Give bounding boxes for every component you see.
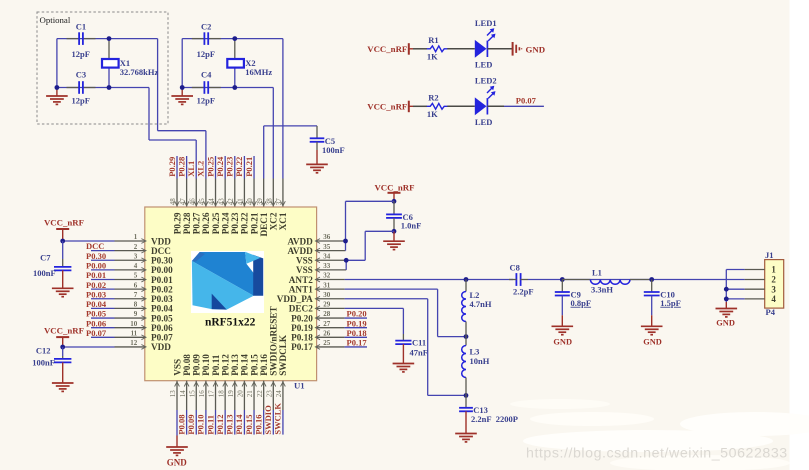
svg-text:P0.07: P0.07: [86, 328, 107, 338]
svg-text:XC1: XC1: [278, 212, 288, 230]
svg-text:16MHz: 16MHz: [245, 67, 272, 77]
svg-text:P0.25: P0.25: [205, 157, 215, 177]
svg-text:14: 14: [179, 390, 187, 398]
svg-text:P0.15: P0.15: [249, 354, 259, 376]
svg-text:C12: C12: [36, 346, 51, 356]
svg-text:29: 29: [323, 301, 331, 309]
svg-text:1: 1: [134, 233, 138, 241]
svg-text:48: 48: [169, 198, 177, 206]
svg-text:18: 18: [217, 390, 225, 398]
svg-text:42: 42: [227, 198, 235, 206]
svg-text:1.0nF: 1.0nF: [401, 220, 422, 230]
svg-text:P0.18: P0.18: [291, 333, 313, 343]
svg-text:LED1: LED1: [475, 18, 497, 28]
svg-text:P0.10: P0.10: [201, 354, 211, 376]
svg-text:VSS: VSS: [296, 265, 313, 275]
svg-text:VDD_PA: VDD_PA: [277, 294, 313, 304]
svg-text:ANT2: ANT2: [289, 275, 313, 285]
svg-text:L1: L1: [592, 268, 602, 278]
svg-text:P4: P4: [766, 307, 776, 317]
svg-text:0.8pF: 0.8pF: [571, 298, 592, 308]
svg-text:47nF: 47nF: [410, 347, 428, 357]
svg-text:GND: GND: [526, 44, 546, 54]
svg-text:SWCLK: SWCLK: [273, 403, 283, 435]
svg-text:100nF: 100nF: [32, 357, 55, 367]
svg-text:P0.04: P0.04: [151, 304, 173, 314]
svg-text:P0.21: P0.21: [249, 212, 259, 234]
svg-text:VCC_nRF: VCC_nRF: [44, 218, 84, 228]
svg-text:R1: R1: [428, 35, 438, 45]
svg-text:P0.00: P0.00: [151, 265, 173, 275]
svg-text:2: 2: [134, 243, 138, 251]
svg-text:P0.00: P0.00: [86, 260, 106, 270]
svg-text:44: 44: [208, 198, 216, 206]
svg-text:ANT1: ANT1: [289, 284, 313, 294]
svg-text:P0.28: P0.28: [182, 212, 192, 234]
svg-text:9: 9: [134, 310, 138, 318]
svg-text:P0.12: P0.12: [215, 415, 225, 435]
svg-text:100nF: 100nF: [322, 145, 345, 155]
svg-text:12pF: 12pF: [197, 95, 215, 105]
svg-text:P0.01: P0.01: [151, 275, 173, 285]
svg-text:3: 3: [771, 284, 776, 294]
svg-text:P0.16: P0.16: [253, 415, 263, 435]
svg-text:45: 45: [198, 198, 206, 206]
svg-text:GND: GND: [643, 338, 662, 347]
svg-text:AVDD: AVDD: [287, 246, 313, 256]
svg-text:P0.14: P0.14: [234, 414, 244, 435]
svg-text:P0.12: P0.12: [220, 354, 230, 376]
svg-text:32: 32: [323, 272, 331, 280]
svg-text:10: 10: [130, 320, 138, 328]
svg-text:P0.07: P0.07: [151, 333, 173, 343]
svg-text:7: 7: [134, 291, 138, 299]
svg-text:XL2: XL2: [196, 161, 206, 177]
svg-text:P0.05: P0.05: [151, 313, 173, 323]
svg-text:P0.11: P0.11: [211, 354, 221, 376]
svg-text:2: 2: [771, 275, 776, 285]
svg-text:P0.09: P0.09: [186, 415, 196, 435]
svg-text:P0.08: P0.08: [176, 415, 186, 435]
svg-text:DEC1: DEC1: [259, 212, 269, 236]
svg-text:2.2pF: 2.2pF: [513, 287, 534, 297]
svg-text:P0.24: P0.24: [220, 212, 230, 234]
svg-text:1: 1: [771, 265, 776, 275]
svg-text:33: 33: [323, 262, 331, 270]
svg-text:P0.28: P0.28: [176, 157, 186, 177]
svg-text:P0.19: P0.19: [347, 318, 367, 328]
svg-text:P0.20: P0.20: [347, 309, 367, 319]
svg-text:P0.02: P0.02: [86, 280, 106, 290]
svg-text:P0.23: P0.23: [230, 212, 240, 234]
svg-text:P0.07: P0.07: [516, 95, 537, 105]
svg-text:47: 47: [179, 198, 187, 206]
svg-text:13: 13: [169, 390, 177, 398]
svg-text:37: 37: [275, 198, 283, 206]
svg-text:P0.05: P0.05: [86, 309, 106, 319]
svg-text:35: 35: [323, 243, 331, 251]
svg-text:21: 21: [246, 390, 254, 398]
svg-text:P0.06: P0.06: [86, 318, 106, 328]
svg-text:AVDD: AVDD: [287, 236, 313, 246]
svg-text:P0.23: P0.23: [225, 157, 235, 177]
svg-text:R2: R2: [428, 93, 438, 103]
svg-text:12pF: 12pF: [72, 49, 90, 59]
svg-text:12pF: 12pF: [197, 49, 215, 59]
svg-text:4: 4: [771, 294, 776, 304]
svg-text:39: 39: [256, 198, 264, 206]
svg-text:4.7nH: 4.7nH: [470, 299, 492, 309]
svg-text:Optional: Optional: [40, 15, 71, 25]
svg-text:26: 26: [323, 330, 331, 338]
svg-text:C4: C4: [201, 70, 212, 80]
svg-text:4: 4: [134, 262, 138, 270]
svg-text:27: 27: [323, 320, 331, 328]
svg-text:P0.13: P0.13: [225, 415, 235, 435]
svg-text:DEC2: DEC2: [289, 304, 313, 314]
svg-text:GND: GND: [167, 458, 188, 468]
svg-text:31: 31: [323, 281, 331, 289]
svg-text:C7: C7: [40, 253, 51, 263]
svg-text:28: 28: [323, 310, 331, 318]
svg-text:GND: GND: [716, 319, 735, 328]
svg-text:U1: U1: [294, 380, 305, 390]
svg-text:P0.22: P0.22: [240, 212, 250, 234]
svg-text:40: 40: [246, 198, 254, 206]
svg-text:https://blog.csdn.net/weixin_5: https://blog.csdn.net/weixin_50622833: [526, 446, 788, 462]
svg-text:VDD: VDD: [151, 342, 171, 352]
svg-text:P0.29: P0.29: [172, 212, 182, 234]
svg-text:25: 25: [323, 339, 331, 347]
svg-text:46: 46: [188, 198, 196, 206]
svg-text:C1: C1: [76, 22, 86, 32]
svg-text:VCC_nRF: VCC_nRF: [367, 44, 407, 54]
svg-text:19: 19: [227, 390, 235, 398]
svg-text:2.2nF 2200P: 2.2nF 2200P: [471, 414, 518, 424]
svg-text:DCC: DCC: [86, 241, 104, 251]
svg-text:34: 34: [323, 252, 331, 260]
svg-text:P0.26: P0.26: [201, 212, 211, 234]
svg-text:15: 15: [188, 390, 196, 398]
svg-text:C2: C2: [201, 22, 211, 32]
svg-text:12: 12: [130, 339, 138, 347]
svg-text:1K: 1K: [427, 109, 438, 119]
svg-text:P0.16: P0.16: [259, 354, 269, 376]
svg-text:P0.03: P0.03: [86, 289, 106, 299]
svg-text:P0.25: P0.25: [211, 212, 221, 234]
svg-text:P0.08: P0.08: [182, 354, 192, 376]
svg-text:SWDIO: SWDIO: [263, 405, 273, 435]
svg-text:LED: LED: [475, 59, 492, 69]
svg-text:1K: 1K: [427, 52, 438, 62]
svg-text:VSS: VSS: [296, 256, 313, 266]
svg-text:16: 16: [198, 390, 206, 398]
svg-text:36: 36: [323, 233, 331, 241]
svg-text:P0.17: P0.17: [347, 338, 368, 348]
svg-text:P0.22: P0.22: [234, 157, 244, 177]
svg-text:P0.29: P0.29: [167, 157, 177, 177]
svg-text:SWDCLK: SWDCLK: [278, 334, 288, 376]
svg-text:22: 22: [256, 390, 264, 398]
svg-text:11: 11: [131, 330, 138, 338]
svg-text:17: 17: [208, 390, 216, 398]
svg-text:VDD: VDD: [151, 236, 171, 246]
svg-text:P0.21: P0.21: [244, 157, 254, 177]
svg-text:C11: C11: [412, 337, 426, 347]
svg-text:P0.02: P0.02: [151, 284, 173, 294]
svg-text:P0.11: P0.11: [205, 415, 215, 435]
svg-text:41: 41: [237, 198, 245, 206]
svg-text:LED: LED: [475, 117, 492, 127]
svg-text:12pF: 12pF: [72, 95, 90, 105]
svg-text:P0.30: P0.30: [151, 256, 173, 266]
svg-text:DCC: DCC: [151, 246, 171, 256]
svg-text:23: 23: [266, 390, 274, 398]
svg-text:LED2: LED2: [475, 75, 497, 85]
svg-text:VCC_nRF: VCC_nRF: [44, 326, 84, 336]
svg-text:SWDIO/nRESET: SWDIO/nRESET: [269, 306, 279, 375]
svg-text:P0.14: P0.14: [240, 354, 250, 376]
svg-text:P0.13: P0.13: [230, 354, 240, 376]
svg-text:20: 20: [237, 390, 245, 398]
svg-text:P0.10: P0.10: [196, 415, 206, 435]
svg-text:P0.18: P0.18: [347, 328, 367, 338]
svg-text:XL1: XL1: [186, 161, 196, 177]
svg-text:P0.17: P0.17: [291, 342, 313, 352]
svg-text:GND: GND: [553, 338, 572, 347]
svg-text:30: 30: [323, 291, 331, 299]
svg-text:C8: C8: [510, 262, 520, 272]
svg-text:32.768kHz: 32.768kHz: [120, 67, 159, 77]
svg-text:P0.01: P0.01: [86, 270, 106, 280]
svg-text:3.3nH: 3.3nH: [591, 285, 613, 295]
svg-text:43: 43: [217, 198, 225, 206]
svg-text:P0.04: P0.04: [86, 299, 107, 309]
svg-text:XC2: XC2: [269, 212, 279, 230]
svg-text:P0.03: P0.03: [151, 294, 173, 304]
svg-text:38: 38: [266, 198, 274, 206]
svg-text:1.5pF: 1.5pF: [660, 298, 681, 308]
svg-text:24: 24: [275, 390, 283, 398]
svg-text:VCC_nRF: VCC_nRF: [374, 182, 414, 192]
svg-text:P0.06: P0.06: [151, 323, 173, 333]
svg-text:J1: J1: [765, 250, 774, 260]
svg-text:P0.19: P0.19: [291, 323, 313, 333]
svg-text:VSS: VSS: [172, 359, 182, 376]
svg-text:10nH: 10nH: [470, 356, 490, 366]
svg-text:P0.20: P0.20: [291, 313, 313, 323]
svg-text:VCC_nRF: VCC_nRF: [367, 102, 407, 112]
svg-text:C3: C3: [76, 70, 86, 80]
svg-text:100nF: 100nF: [33, 268, 56, 278]
svg-text:L3: L3: [470, 346, 480, 356]
svg-text:nRF51x22: nRF51x22: [205, 317, 256, 329]
svg-text:5: 5: [134, 272, 138, 280]
svg-text:P0.30: P0.30: [86, 251, 106, 261]
svg-text:3: 3: [134, 252, 138, 260]
svg-text:P0.24: P0.24: [215, 156, 225, 177]
svg-text:P0.09: P0.09: [192, 354, 202, 376]
svg-text:P0.15: P0.15: [244, 415, 254, 435]
svg-text:8: 8: [134, 301, 138, 309]
svg-text:6: 6: [134, 281, 138, 289]
svg-text:P0.27: P0.27: [192, 212, 202, 234]
